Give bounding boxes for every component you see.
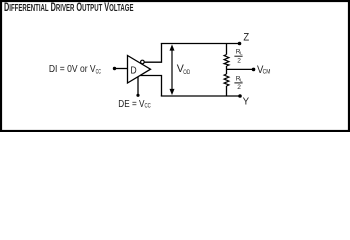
svg-text:2: 2: [237, 58, 241, 65]
wire bottom rail: [161, 95, 240, 97]
frame border: [1, 1, 349, 131]
node VCM dot: [252, 68, 256, 72]
node DE dot: [136, 94, 139, 97]
wire inverting output (bubble) to top rail: [144, 44, 161, 63]
wire from top rail to resistor chain: [226, 44, 228, 55]
label RL/2 top: [234, 48, 243, 64]
wire noninverting output to bottom rail: [140, 76, 161, 97]
wire top rail: [161, 43, 240, 45]
svg-text:DIFFERENTIAL DRIVER OUTPUT VOL: DIFFERENTIAL DRIVER OUTPUT VOLTAGE: [4, 1, 134, 14]
inversion bubble on driver top edge: [141, 60, 145, 64]
node DI input dot: [113, 67, 116, 70]
svg-text:Y: Y: [243, 96, 250, 107]
node Z terminal dot: [238, 42, 242, 46]
svg-text:OD: OD: [183, 69, 190, 76]
resistor RL/2 (bottom, zigzag): [224, 74, 229, 86]
svg-text:DI = 0V or V: DI = 0V or V: [49, 64, 96, 75]
driver D (triangle): [128, 56, 151, 84]
svg-text:L: L: [240, 51, 243, 57]
resistor RL/2 (top, zigzag): [224, 55, 229, 67]
svg-text:CC: CC: [145, 103, 152, 110]
svg-text:DE = V: DE = V: [118, 99, 144, 110]
svg-text:D: D: [130, 66, 136, 77]
svg-text:CC: CC: [96, 68, 102, 75]
wire between resistors / VCM node: [226, 66, 228, 74]
svg-text:CM: CM: [263, 69, 271, 76]
wire VCM tap: [227, 68, 254, 70]
label RL/2 bottom: [234, 75, 243, 91]
VOD measurement arrow (double headed): [171, 49, 173, 92]
wire resistor to bottom rail: [226, 86, 228, 96]
wire DI input: [115, 68, 128, 70]
svg-text:Z: Z: [243, 32, 249, 44]
wire DE enable from driver bottom edge: [137, 77, 139, 96]
node Y terminal dot: [238, 94, 242, 98]
svg-text:2: 2: [237, 84, 241, 91]
